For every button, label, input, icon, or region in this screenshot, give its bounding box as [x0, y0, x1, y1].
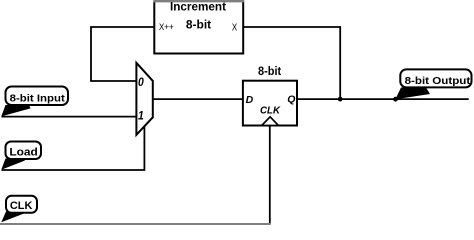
wire: mux output to register D input [153, 98, 243, 100]
svg-text:8-bit: 8-bit [258, 64, 281, 78]
svg-text:CLK: CLK [10, 200, 33, 212]
callout: CLK tail [1, 212, 24, 223]
node: junction Q/feedback [338, 97, 343, 102]
callout: 8-bit Output bubble [400, 69, 471, 87]
callout: Load bubble [6, 142, 42, 160]
svg-text:0: 0 [138, 75, 144, 89]
svg-text:Q: Q [287, 94, 295, 106]
increment box top edge (clipped, gray) [153, 0, 244, 2]
svg-text:X: X [232, 23, 238, 34]
svg-text:8-bit Input: 8-bit Input [10, 92, 66, 104]
wire: CLK horizontal (clipped at bottom, gray) [0, 223, 271, 225]
clock edge triangle [262, 117, 279, 126]
wire: increment X input from Q output (right feedback) [243, 27, 340, 99]
callout: Load tail [1, 159, 25, 170]
svg-text:X++: X++ [159, 22, 174, 33]
svg-text:D: D [246, 94, 254, 106]
svg-text:CLK: CLK [260, 106, 281, 117]
svg-text:8-bit: 8-bit [186, 18, 211, 32]
svg-text:1: 1 [138, 109, 144, 123]
callout: 8-bit Input tail [1, 105, 30, 116]
wire: increment X++ output to mux 0 input (left feedback) [91, 27, 154, 81]
wire: CLK vertical to register clock [269, 126, 271, 225]
callout: CLK bubble [6, 196, 37, 213]
svg-text:8-bit Output: 8-bit Output [405, 75, 471, 87]
wire: register Q output to 8-bit Output [297, 98, 469, 100]
register U3 box (8-bit D flip-flop) [243, 81, 297, 126]
wire: 8-bit Input to mux 1 input [2, 116, 137, 118]
increment unit U1 box [154, 1, 243, 53]
callout: 8-bit Output tail [395, 88, 430, 100]
callout: 8-bit Input bubble [6, 87, 69, 106]
svg-text:Load: Load [9, 147, 37, 159]
wire: Load to mux select [2, 126, 145, 170]
node: junction output callout [393, 97, 398, 102]
mux U2 (2:1 multiplexer trapezoid) [136, 63, 152, 135]
svg-text:Increment: Increment [170, 0, 226, 14]
